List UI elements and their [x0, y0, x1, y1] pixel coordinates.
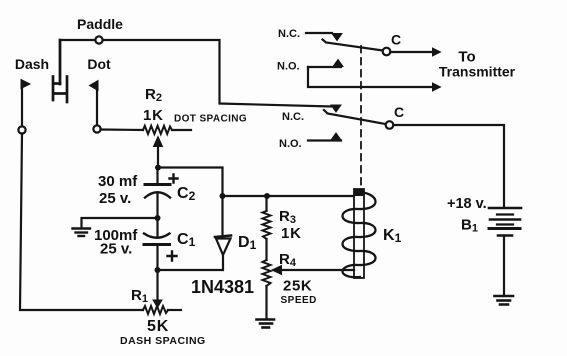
- wire dot to R2: [101, 128, 144, 131]
- R2 wiper arrow: [157, 146, 159, 168]
- wire paddle top run: [60, 40, 331, 107]
- diode D1: [221, 196, 223, 234]
- relay K1 core: [354, 189, 364, 278]
- contact Dot arm: [96, 84, 98, 125]
- svg-text:N.O.: N.O.: [277, 61, 300, 73]
- resistor R1: [143, 306, 168, 314]
- node junction ground tap: [155, 215, 161, 221]
- R4 wiper arrow to K1: [281, 269, 354, 271]
- svg-text:Paddle: Paddle: [77, 16, 123, 32]
- svg-text:5K: 5K: [147, 318, 169, 335]
- svg-text:C: C: [391, 32, 401, 48]
- contact set 1 blade: [323, 40, 384, 51]
- wire R3 to R4: [265, 239, 267, 260]
- paddle mechanism: [53, 40, 67, 102]
- svg-text:25K: 25K: [283, 278, 312, 295]
- wire dash to R1: [20, 134, 143, 311]
- contact set 1 N.C. stub: [306, 32, 332, 34]
- dashed actuator line: [360, 46, 362, 187]
- R1 wiper arrow: [156, 270, 158, 300]
- svg-text:25 v.: 25 v.: [100, 241, 132, 258]
- node junction R2 wiper rail: [155, 165, 161, 171]
- ground (below R4): [257, 320, 275, 328]
- node Dash terminal: [18, 126, 25, 133]
- svg-text:N.C.: N.C.: [278, 28, 300, 40]
- wire C set2 to battery: [394, 125, 505, 206]
- resistor R3: [265, 196, 267, 211]
- svg-text:1N4381: 1N4381: [191, 277, 254, 297]
- node paddle terminal: [95, 36, 102, 43]
- capacitor C1: [144, 234, 170, 238]
- svg-text:Dot: Dot: [87, 56, 111, 72]
- capacitor C2: [145, 183, 170, 186]
- svg-text:DASH SPACING: DASH SPACING: [120, 335, 206, 347]
- svg-text:25 v.: 25 v.: [99, 190, 131, 207]
- node Dot terminal: [93, 125, 100, 132]
- battery B1: [489, 208, 521, 236]
- node junction D1 top: [220, 193, 226, 199]
- wire N.O. to transmitter arrow: [308, 67, 433, 87]
- contact set 2 N.C. tip: [331, 105, 341, 112]
- resistor R2: [143, 126, 172, 134]
- svg-text:1K: 1K: [281, 225, 302, 242]
- svg-text:C: C: [394, 104, 404, 120]
- ground (left): [73, 229, 91, 237]
- wire bottom junction to D1 bottom: [158, 269, 223, 271]
- svg-text:+18 v.: +18 v.: [447, 196, 487, 212]
- svg-text:Dash: Dash: [15, 56, 49, 72]
- svg-text:DOT SPACING: DOT SPACING: [174, 114, 247, 125]
- svg-text:SPEED: SPEED: [281, 295, 317, 306]
- wire junction to D1 top: [158, 168, 223, 197]
- node common C set1: [383, 48, 391, 56]
- relay K1 coil spiral: [343, 192, 376, 277]
- svg-text:N.C.: N.C.: [282, 111, 304, 123]
- svg-text:Transmitter: Transmitter: [439, 64, 516, 80]
- contact set 2 blade: [324, 110, 386, 124]
- label C1 plus: [168, 252, 177, 261]
- wire C2 to gnd junction: [156, 193, 158, 218]
- contact set 2 N.O. stub: [308, 139, 341, 141]
- wire battery to ground: [503, 237, 505, 295]
- node common C set2: [386, 121, 394, 129]
- svg-text:30 mf: 30 mf: [98, 173, 138, 190]
- svg-text:1K: 1K: [143, 107, 164, 124]
- wire R2 right stub: [172, 129, 191, 131]
- contact Dash arm: [21, 84, 23, 126]
- svg-text:N.O.: N.O.: [279, 138, 302, 150]
- wire C1 to bottom junction: [156, 246, 158, 270]
- ground (below battery): [495, 296, 514, 305]
- contact Dot tip: [90, 81, 99, 91]
- contact set 1 N.O. stub: [308, 66, 341, 68]
- wire to ground left: [82, 218, 158, 228]
- wire R1 right stub: [168, 309, 181, 311]
- wire rail to C2: [156, 168, 158, 184]
- wire D1 top to K1 coil: [223, 195, 355, 197]
- wire C1 to transmitter arrow: [391, 51, 434, 53]
- label C2 plus: [170, 175, 178, 183]
- node junction R3 top: [264, 193, 270, 199]
- resistor R4: [263, 260, 271, 286]
- wire R4 to ground: [265, 286, 267, 319]
- contact Dash tip: [21, 80, 30, 89]
- node junction C1 bottom: [155, 267, 161, 273]
- wire gnd junction to C1: [156, 218, 158, 237]
